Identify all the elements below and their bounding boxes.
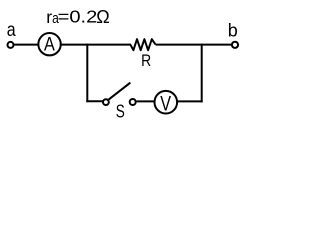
svg-text:b: b <box>228 21 238 41</box>
svg-text:R: R <box>141 52 151 71</box>
svg-text:=0.2: =0.2 <box>58 7 98 26</box>
svg-text:A: A <box>44 33 55 55</box>
svg-text:Ω: Ω <box>96 7 109 27</box>
svg-text:a: a <box>7 19 16 41</box>
svg-text:S: S <box>116 102 125 123</box>
svg-text:r: r <box>46 7 52 27</box>
svg-text:V: V <box>160 93 171 117</box>
